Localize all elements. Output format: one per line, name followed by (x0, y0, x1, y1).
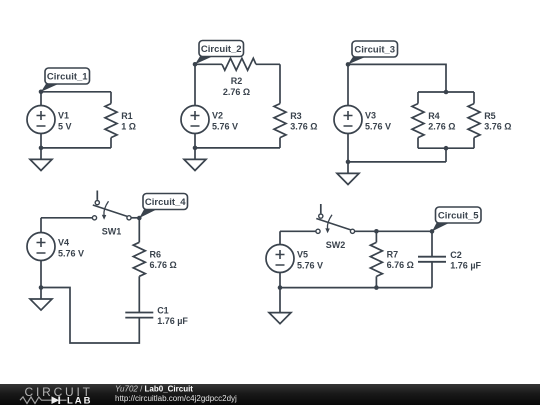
voltage source V2 (181, 106, 209, 134)
svg-text:LAB: LAB (67, 395, 93, 405)
wire top bus circuit 4 (41, 217, 95, 219)
wire top bus circuit 1 (41, 91, 111, 93)
label SW1 (102, 226, 122, 236)
wire parallel stem (445, 148, 447, 162)
wire left branch V1 (40, 92, 42, 148)
logo resistor zigzag (20, 397, 52, 404)
resistor R7 (370, 242, 382, 276)
label R7 value (387, 250, 414, 271)
node A2 (193, 62, 198, 67)
wire bottom bus circuit 2 (195, 147, 280, 149)
svg-text:3.76 Ω: 3.76 Ω (484, 121, 511, 131)
svg-text:2.76 Ω: 2.76 Ω (428, 121, 455, 131)
wire C2 top lead (431, 231, 433, 256)
label R6 value (150, 250, 177, 271)
svg-text:R3: R3 (290, 111, 302, 121)
svg-text:5 V: 5 V (58, 121, 72, 131)
svg-text:SW1: SW1 (102, 226, 122, 236)
wire bottom bus circuit 3 (348, 161, 446, 163)
label C2 value (450, 250, 481, 271)
capacitor C1 (125, 313, 153, 318)
wire R1 top lead (110, 92, 112, 104)
wire C2 bottom lead (431, 262, 433, 288)
ground circuit 3 (337, 162, 359, 185)
svg-text:C1: C1 (157, 305, 169, 315)
wire top bus circuit 2 left (195, 63, 222, 65)
resistor R4 (412, 104, 424, 138)
wire top bus circuit 2 right (256, 63, 280, 65)
junction circuit 1 bottom (39, 146, 44, 151)
svg-text:5.76 V: 5.76 V (365, 121, 391, 131)
svg-text:R6: R6 (150, 250, 162, 260)
svg-text:V1: V1 (58, 111, 69, 121)
wire R4 top lead (417, 92, 419, 104)
node A5 (430, 229, 435, 234)
node A3 (346, 62, 351, 67)
junction R7 bottom (374, 285, 379, 290)
label R4 value (428, 111, 455, 132)
svg-text:Yu702 / Lab0_Circuit: Yu702 / Lab0_Circuit (115, 385, 193, 394)
wire left branch V5 (279, 231, 281, 287)
label V5 value (297, 250, 323, 271)
svg-text:6.76 Ω: 6.76 Ω (387, 260, 414, 270)
label R1 value (121, 111, 136, 132)
wire bottom bus circuit 1 (41, 147, 111, 149)
wire switch to node circuit 4 (131, 217, 139, 219)
wire switch to C2 branch (355, 230, 432, 232)
wire R4 bottom lead (417, 138, 419, 149)
logo diode symbol (52, 396, 67, 404)
node A4 (137, 216, 142, 221)
voltage source V4 (27, 233, 55, 261)
voltage source V5 (266, 245, 294, 273)
junction R7 top (374, 229, 379, 234)
svg-text:C2: C2 (450, 250, 462, 260)
callout Circuit_1 (41, 68, 90, 92)
svg-text:Circuit_2: Circuit_2 (201, 44, 242, 55)
ground circuit 4 (30, 288, 52, 311)
switch SW1 (92, 191, 131, 220)
svg-text:V3: V3 (365, 111, 376, 121)
svg-text:R5: R5 (484, 111, 496, 121)
junction circuit 2 bottom (193, 146, 198, 151)
switch SW2 (316, 204, 355, 233)
footer url text (115, 394, 237, 403)
wire left branch V4 (40, 218, 42, 288)
wire parallel top cross (418, 91, 474, 93)
wire top bus circuit 3 (348, 64, 446, 92)
svg-text:R2: R2 (231, 76, 243, 86)
wire R5 top lead (473, 92, 475, 104)
svg-text:1 Ω: 1 Ω (121, 121, 136, 131)
label SW2 (326, 240, 346, 250)
wire parallel bottom cross (418, 147, 474, 149)
junction parallel top (444, 90, 449, 95)
wire R3 top lead (279, 64, 281, 103)
wire R7 bottom lead (375, 276, 377, 287)
wire left branch V2 (194, 64, 196, 148)
ground circuit 1 (30, 148, 52, 171)
footer bar (0, 384, 540, 405)
ground circuit 5 (269, 288, 291, 324)
svg-text:6.76 Ω: 6.76 Ω (150, 260, 177, 270)
label V3 value (365, 111, 391, 132)
wire left branch V3 (347, 64, 349, 161)
svg-text:3.76 Ω: 3.76 Ω (290, 121, 317, 131)
node A1 (39, 90, 44, 95)
junction circuit 4 bottom (39, 285, 44, 290)
svg-text:5.76 V: 5.76 V (212, 121, 238, 131)
svg-text:Circuit_4: Circuit_4 (145, 197, 186, 208)
label V1 value (58, 111, 72, 132)
callout Circuit_3 (348, 41, 398, 64)
label V4 value (58, 238, 84, 259)
svg-text:Circuit_1: Circuit_1 (47, 71, 88, 82)
label V2 value (212, 111, 238, 132)
capacitor C2 (418, 257, 446, 262)
callout Circuit_2 (195, 41, 244, 65)
logo CIRCUIT text (25, 385, 93, 399)
wire top bus circuit 5 (280, 230, 318, 232)
svg-text:Circuit_5: Circuit_5 (438, 210, 479, 221)
junction circuit 3 bottom (346, 160, 351, 165)
ground circuit 2 (184, 148, 206, 171)
label R2 value (223, 76, 250, 97)
label R5 value (484, 111, 511, 132)
junction circuit 5 bottom (278, 285, 283, 290)
label C1 value (157, 305, 188, 326)
voltage source V3 (334, 106, 362, 134)
wire R6 top branch (138, 218, 140, 243)
footer title text (115, 385, 193, 394)
logo LAB text (67, 395, 93, 405)
svg-text:V2: V2 (212, 111, 223, 121)
wire R7 top lead (375, 231, 377, 242)
svg-text:5.76 V: 5.76 V (297, 260, 323, 270)
svg-text:SW2: SW2 (326, 240, 346, 250)
callout Circuit_4 (139, 194, 187, 219)
svg-text:http://circuitlab.com/c4j2gdpc: http://circuitlab.com/c4j2gdpcc2dyj (115, 394, 237, 403)
svg-text:1.76 µF: 1.76 µF (450, 261, 481, 271)
wire C1 bottom return (41, 288, 139, 344)
junction parallel bottom (444, 146, 449, 151)
resistor R3 (274, 104, 286, 138)
callout Circuit_5 (432, 207, 481, 231)
svg-text:R1: R1 (121, 111, 133, 121)
svg-text:V4: V4 (58, 238, 69, 248)
resistor R5 (468, 104, 480, 138)
svg-text:R4: R4 (428, 111, 440, 121)
voltage source V1 (27, 106, 55, 134)
wire R5 bottom lead (473, 138, 475, 149)
svg-text:V5: V5 (297, 250, 308, 260)
resistor R6 (133, 242, 145, 276)
wire R6 to C1 (138, 276, 140, 312)
resistor R1 (105, 104, 117, 138)
wire R3 bottom lead (279, 138, 281, 148)
svg-text:R7: R7 (387, 250, 399, 260)
svg-text:5.76 V: 5.76 V (58, 248, 84, 258)
resistor R2 (222, 58, 256, 70)
svg-text:1.76 µF: 1.76 µF (157, 316, 188, 326)
wire R1 bottom lead (110, 138, 112, 148)
svg-text:Circuit_3: Circuit_3 (354, 44, 395, 55)
label R3 value (290, 111, 317, 132)
svg-text:2.76 Ω: 2.76 Ω (223, 87, 250, 97)
wire bottom bus circuit 5 (280, 287, 432, 289)
